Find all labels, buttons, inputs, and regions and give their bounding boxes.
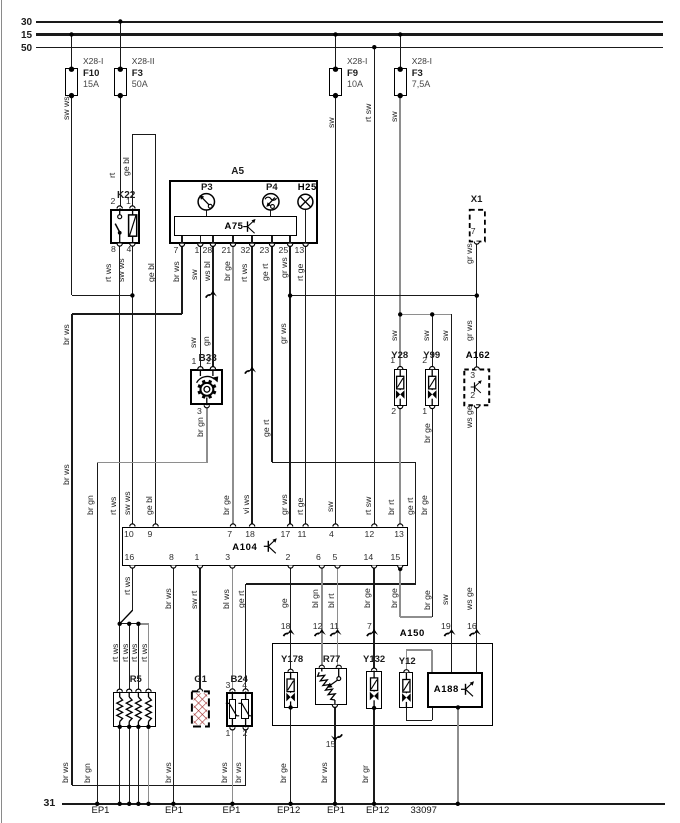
wire br-ge A104 pin15 down [399,567,400,617]
pin number A104 pin 15 [391,553,401,563]
junction R5 rail 2 [127,802,131,806]
pin bump B33 top x200.4 [198,367,203,370]
wire ge-bl K22 pin1 up [132,134,133,208]
resistor element R5-2 [128,692,130,697]
pin number Y28 pin 2 [391,407,396,417]
control unit A188 [427,672,484,708]
valve symbol Y132 [373,671,375,678]
pin number A150 pin 11 [330,622,339,632]
wire label ge rt right of A104 [405,498,415,515]
wire label sw above A104 [325,501,335,512]
pin bump K22 top x132.4 [130,206,135,209]
wire R5 ground 1 [119,727,120,804]
ground EP1 d [327,806,345,817]
wire br-ws A5 pin7 down [181,244,182,314]
wire label rt sw above A104 [363,497,373,515]
pin bump R77 top x321.8 [319,665,324,668]
ground EP12 a [277,806,300,817]
ground rail 31 [62,803,665,805]
junction A104 pin15 [398,567,402,571]
junction rail 3 [288,802,292,806]
pin number X1 pin 7 [471,227,476,237]
wire A75 pin stub 7 [289,236,290,244]
wire bl-gn A104 pin6 to R77 [321,567,322,668]
wire label sw B33 pin1 [188,337,198,348]
pin number A104 pin 10 [124,530,134,540]
junction Y132 bottom [372,706,376,710]
pin bump Y132 top [372,668,377,671]
pin bump R5 x119.7 [117,689,122,692]
wire Y12 loop top [406,649,432,650]
pin number A5 pin 21 [222,246,232,256]
pin number A104 pin 11 [298,530,307,540]
wire ws-ge A162 to A188 [476,405,477,671]
label A5 [231,166,244,177]
wire label rt ws below K22 [103,264,113,282]
resistor element R5-3 [137,692,139,697]
wire Y12 loop top right leg [431,650,432,672]
wire ge-rt lower elbow [246,583,416,584]
wire label br ge above A104 [221,495,231,515]
fuse F9 bus dot [333,32,337,36]
wire label rt ws above A104 [108,497,118,515]
solenoid valve Y178 body [284,672,298,708]
pin bump A104 top x233 [230,524,235,527]
wire label rt ws R5 tap4 [139,643,149,661]
junction rail 4 [333,802,337,806]
valve symbol Y178 [290,672,292,679]
wire label br ge A5 pin21 [222,261,232,281]
ground EP12 b [366,806,389,817]
pin bump A104 top x305.6 [303,524,308,527]
flow arrow on ws-bl wire [206,295,210,298]
label R77 [323,655,340,666]
pin bump A104 top x132.4 [130,524,135,527]
wire label rt ws R5 tap3 [129,643,139,661]
label 30 [21,17,32,28]
wire label gr ws above A104 [279,494,289,515]
pin bump A5 x200.3 [198,244,203,247]
gauge unit A75 [174,216,297,236]
wire br-gn to ground [97,463,98,804]
pin number A104 pin 4 [329,530,334,540]
junction sw bus at Y99 [430,312,434,316]
wire Y12 loop bottom [406,720,432,721]
speed sensor B33 gear [212,390,216,394]
wire label rt ws R5 tap1 [110,643,120,661]
relay K22 [110,209,140,244]
pin bump B24 top x232.4 [230,689,235,692]
wire sw F9 to A104 pin4 [335,97,336,525]
pin bump A5 x182 [179,244,184,247]
pin number A104 pin 6 [316,553,321,563]
pin number A104 pin 5 [333,553,338,563]
wire rt-sw bus50 to A104 pin12 [374,47,375,524]
wire bl-rt A104 pin5 to R77 [337,567,338,668]
fuse F10 value [83,79,99,89]
B33 pin stubs [200,369,213,376]
wire rt-ws R5 bus black part [119,623,140,624]
pin bump K22 bottom x132.4 [130,244,135,247]
fuse F3 50A bus dot [118,19,122,23]
junction R5 bottom 3 [136,725,140,729]
wire label br gn B33 pin3 [195,417,205,437]
wire label ge rt A5 pin23 [260,264,270,281]
wire label ge to Y178 [279,598,289,608]
junction rail 6 [456,802,460,806]
pin bump A104 bottom x290.6 [288,566,293,569]
wire br-ge Y178 to ground [290,708,291,804]
fuse F3 50A ref [132,69,143,80]
wire R5 tap2 down [129,624,130,692]
wire label ge rt mid [261,420,271,437]
wire ge A104 pin2 to Y178 [290,567,291,672]
solenoid valve Y12 body [399,672,413,708]
pin number A5 pin 7 [174,246,179,256]
fuse F9 connector label [347,57,367,67]
wire gr-ws A5 pin25 to A104 pin17 [289,244,290,524]
wire label ws bl A5 pin28 [202,261,212,281]
junction R5 bottom 2 [127,725,131,729]
wire label br ws below A104 [163,588,173,609]
pin bump R5 x148.5 [146,689,151,692]
fuse F10 connector label [83,57,103,67]
pin bump R5 x138.4 [136,689,141,692]
pin number A104 pin 2 [286,553,291,563]
junction R5 rail 3 [136,802,140,806]
A150 entry arrow 16 [470,633,474,636]
wire rt-ws R5 bus gray part [140,623,149,624]
wire label gr ws A5 pin25 [279,257,289,278]
pin bump A5 x290.1 [288,244,293,247]
wire label sw rt to G1 [189,591,199,609]
junction rail 5 [372,802,376,806]
warning lamp H25 [298,194,313,209]
bus 15 [36,33,664,36]
wire R5 tap3 down [138,624,139,692]
fuse F3 50A body [114,68,127,96]
pin number A104 pin 9 [148,530,153,540]
pin number B24 pin 1 [226,729,231,739]
pin bump Y28 top [398,367,403,370]
wire label rt ws below A104 [122,577,132,595]
junction R5 tap2 [127,622,131,626]
pin number A5 pin 13 [295,246,305,256]
wire A188 to ground [457,708,458,804]
wire label gr ws X1 upper [464,243,474,264]
pin number Y28 pin 1 [390,356,395,366]
wire label rt sw under bus50 [363,104,373,122]
wire ws-bl A5 pin28 to B33 pin2 [212,244,213,369]
symbol in A104 [264,545,269,547]
pin bump Y99 top [430,367,435,370]
pin number A104 pin 12 [365,530,375,540]
junction R5 rail 1 [118,802,122,806]
wire label gr ws X1 lower [464,320,474,341]
wire label br gn above A104 [85,495,95,515]
pin bump A104 top x374.3 [372,524,377,527]
wire A75 pin stub 4 [232,236,233,244]
A150 entry arrow 18 [284,633,288,636]
pin bump A5 x233 [230,244,235,247]
pin number A104 pin 7t [227,530,232,540]
junction rail 2 [230,802,234,806]
pin number A5 pin 23 [260,246,270,256]
wire label sw ws below K22 [116,258,126,282]
wire label sw under F9 [326,117,336,128]
A150 entry arrow 19 [445,633,449,636]
wire label ge rt to B24 [236,591,246,608]
junction rail 0 [95,802,99,806]
pin number A104 pin 17 [281,530,291,540]
solenoid valve Y28 body [394,369,407,406]
wire rt-ws A5 pin32 to A104 pin18 [251,244,252,524]
wire A75 pin stub 3 [212,236,213,244]
pin number A104 pin 18 [245,530,255,540]
wire label ws ge below A162 [464,405,474,428]
pin bump A162 top [474,367,479,370]
wire sw-rt A104 pin1 to G1 [199,567,200,689]
wire rt-ws diagonal jog [120,610,133,623]
label P4 [266,183,278,194]
junction sw bus at Y28 [398,312,402,316]
label Y28 [391,351,408,362]
pin number A5 pin 1 [195,246,200,256]
temperature sensor elements B24 [226,703,239,716]
pin number K22 pin 2 [111,197,116,207]
wire label vi ws above A104 [241,495,251,514]
wire R5 tap4 down [148,624,149,692]
wire rt-ws K22 pin8 to R5 bus [119,244,120,692]
wire ge-bl top elbow [133,134,156,135]
pin bump G1 top [197,689,202,692]
pin bump B24 bottom x232.4 [230,727,235,730]
wire br-ge elbow join [400,616,432,617]
pin number K22 pin 8 [111,245,116,255]
label K22 [117,190,135,201]
wire br-ws B24 pin1 to ground [232,727,233,804]
junction R5 tap3 [136,622,140,626]
label A162 [466,351,490,362]
wire br-ge A104 pin14 to Y132 [373,567,374,670]
fuse F9 caps [333,67,338,72]
wire sw F3-7,5A to Y28 [399,97,400,367]
wire label rt above K22 [107,173,117,178]
pin bump A104 bottom x321.8 [319,566,324,569]
pin number A150 pin 7 [367,622,372,632]
wire ge-bl down to A104 pin9 [155,134,156,524]
pin bump R77 bottom [332,705,337,708]
label 50 [21,43,32,54]
wire br-ws bottom run to B24 [72,785,246,786]
wire gr-ws link [290,295,477,296]
wire R5 ground 4 [148,727,149,804]
wire sw bus Y28-Y99 [400,314,451,315]
pin bump A104 bottom x374.1 [372,566,377,569]
wire sw A5 pin1 to B33 pin1 [200,244,201,369]
pin bump A104 top x155.6 [153,524,158,527]
pin number A150 pin 19 [441,622,451,632]
pin bump Y12 top [404,670,409,673]
wire F3-7,5A to bus 15 [400,35,401,69]
wire ge-rt A5 pin23 down [271,244,272,462]
wire Y12 loop bottom right leg [432,708,433,720]
wire Y12 loop bottom left leg [406,708,407,721]
fuse F10 ref [83,69,99,80]
wire F9 to bus 15 [335,35,336,69]
label B33 [199,353,217,364]
pin number A104 pin 8 [169,553,174,563]
wire sw-ws elbow to K22 column [72,295,133,296]
wire label sw Y99 [421,330,431,341]
pin number A162 pin 3 [470,371,475,381]
wire br-ws left column [71,314,72,785]
wire br-rt Y28 to A104 pin13 [399,408,400,524]
pin number A5 pin 32 [241,246,251,256]
pin number A150 pin 18 [281,622,291,632]
pin bump K22 bottom x119.7 [117,244,122,247]
pin number B24 pin 3 [226,681,231,691]
fuse F9 ref [347,69,358,80]
wire label br rt above A104 [386,500,396,515]
pin bump A104 top x290.1 [288,524,293,527]
wire label sw ws under F10 [61,96,71,120]
A150 entry arrow 7 [367,633,371,636]
wire label rt ge above A104 [295,498,305,515]
A150 entry arrow 12 [315,633,319,636]
wire A75 pin stub 6 [271,236,272,244]
diagram number 33097 [411,806,437,817]
wire label br ws bottom left [60,762,70,783]
wire rt-ws A104 pin16 stub [132,567,133,610]
wire label br ws A5 pin7 [171,261,181,282]
pin bump K22 top x119.7 [117,206,122,209]
pin number B33 pin 1 [192,357,197,367]
wire label bl gn to R77 [310,589,320,608]
solenoid valve Y132 body [366,671,382,709]
fuse F3 7,5A value [412,79,431,89]
wire label ws ge to pin16 [464,587,474,610]
pin bump X1 bottom [474,242,479,245]
pin number Y99 pin 2 [422,356,427,366]
wire br-ws A104 pin8 to ground [173,567,174,804]
label A104 [232,543,257,554]
pin number A150 pin 16 [467,622,477,632]
pin number K22 pin 4 [127,245,132,255]
wire label sw A5 pin1 [189,269,199,280]
control unit A162 [464,370,489,406]
junction R5 bottom 4 [146,725,150,729]
wire label br ge from pin15 [389,588,399,608]
junction R5 rail 4 [146,802,150,806]
ground EP1 a [92,806,110,817]
wire label br ge from Y99 [422,590,432,610]
wire br-gr Y132 to ground [373,709,374,804]
resistor element R5-1 [119,692,121,697]
pin number A104 pin 1b [195,553,200,563]
wire sw to Y99 [432,314,433,366]
valve symbol Y28 [399,369,401,376]
label H25 [298,183,317,194]
wire br-ws up to B24 pin2 [245,727,246,785]
junction A188 bottom [456,705,460,709]
wire ge-rt down to B24 pin4 [245,584,246,689]
temperature sensors B24 [226,692,253,728]
label Y12 [399,657,416,668]
pin number B24 pin 2 [243,729,248,739]
wire A75 pin stub 1 [181,236,182,244]
pin bump A104 bottom x400.2 [398,566,403,569]
fuse F3 7,5A connector label [412,57,432,67]
flow arrow on vi-ws wire [245,371,249,374]
wire Y12 loop top left leg [406,650,407,673]
wire label sw Y28 [389,330,399,341]
A150 entry arrow 11 [331,633,335,636]
wire R5 ground 2 [129,727,130,804]
wire P3 stub [206,210,207,216]
pin bump B24 bottom x245.6 [243,727,248,730]
instrument cluster A5 [169,180,318,244]
label R5 [130,675,142,686]
B33 rotation arc arrow [197,376,215,382]
label A75 [225,222,244,233]
label A188 [434,685,459,696]
pin bump Y99 bottom [430,406,435,409]
potentiometer R77 element [321,668,323,672]
pin bump A5 x212.9 [210,244,215,247]
fuse F10 caps [69,67,74,72]
fuse F3 7,5A bus dot [398,32,402,36]
wire sw-ws K22 pin4 to A104 pin10 [132,244,133,525]
pin number A5 pin 28 [203,246,213,256]
wire F10 to bus 15 [71,35,72,69]
wire rt F3-50A to K22 pin2 [120,97,121,209]
wire label rt ws R5 tap2 [120,643,130,661]
pin number A5 pin 25 [279,246,289,256]
wire F3-50A to bus 30 [120,22,121,69]
pin number A104 pin 14 [364,553,374,563]
wire label br gn bottom [82,763,92,783]
fuse F9 body [329,68,342,96]
pin number B33 pin 2 [206,357,211,367]
wire br-gn horizontal [97,462,207,463]
wire bl-ws A104 pin3 to B24 pin3 [232,567,233,689]
solenoid valve Y99 body [425,369,439,406]
fuse F3 7,5A caps [398,67,403,72]
junction Y178 bottom [288,705,292,709]
pin bump R77 top x338.8 [336,665,341,668]
wire label rt ge A5 pin13 [295,264,305,281]
wire ge-rt upper elbow [272,462,416,463]
label Y178 [281,655,303,666]
page left border line [1,0,3,823]
pin bump A162 bottom [474,405,479,408]
junction gr-ws right [475,293,479,297]
wire br-gn B33 pin3 stub [206,405,207,463]
relay K22 coil [132,209,134,244]
pin bump A104 top x400.2 [398,524,403,527]
wire label ge bl above K22 [121,157,131,176]
fuse F3 50A value [132,79,148,89]
pin bump Y178 top [288,669,293,672]
pin bump A104 top x335.5 [333,524,338,527]
wire label sw under F3-7,5A [389,111,399,122]
bus 30 [36,21,664,23]
wire A75 pin stub 2 [200,236,201,244]
pin bump A104 bottom x200 [197,566,202,569]
wire label br ge Y178 ground [278,763,288,783]
junction F10/K22 sw-ws [130,293,134,297]
